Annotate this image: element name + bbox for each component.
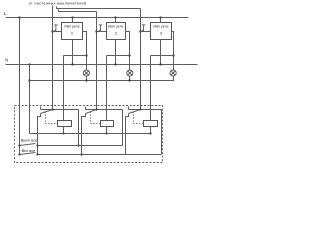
wire: relay 2 coil return to N <box>115 40 117 65</box>
node: N connection module 2 <box>114 63 116 65</box>
svg-text:Имп реле: Имп реле <box>64 24 80 28</box>
wire: all-off line <box>38 145 123 147</box>
wire: L to relay module 2 <box>115 18 117 23</box>
svg-text:Имп реле: Имп реле <box>153 24 169 28</box>
lamp EL2 <box>127 70 133 76</box>
wire: state line down to group coil 1 <box>63 56 65 121</box>
node: button line junction module 1 <box>51 30 53 32</box>
wire: button line into relay module 3 <box>141 31 151 33</box>
wire: aux contact 3 rail down <box>161 110 163 155</box>
node: control line end at aux contact 1 <box>51 108 53 110</box>
push-button SB2 (wall switch) <box>98 25 102 32</box>
node: L connection module 3 <box>159 16 161 18</box>
wire: control line module 2 (drop from wall-switch bus) <box>96 12 98 110</box>
wire: aux contact 2 common down to ON rail <box>82 114 86 155</box>
wire: state line down to group coil 3 <box>150 56 152 121</box>
node: L tap for master switches <box>18 16 20 18</box>
node: lamp 1 return junction <box>85 79 87 81</box>
group-control relay coil K1 <box>58 121 72 127</box>
impulse relay module 2 (Имп реле 2) <box>107 23 126 40</box>
wire: control line module 3 (drop from wall-switch bus) <box>140 9 142 110</box>
wire: lamp 3 to return bus <box>173 77 175 81</box>
node: control line end at aux contact 3 <box>139 108 141 110</box>
node: module 1 rail to all-off line <box>77 144 79 146</box>
node: N connection module 3 <box>159 63 161 65</box>
impulse relay module 3 (Имп реле 3) <box>151 23 172 40</box>
wire: state tap line module 2 <box>107 55 130 57</box>
aux contact 3: bar / state rail <box>129 109 162 111</box>
node: all-on line junction <box>36 153 38 155</box>
wire: all-on line <box>38 154 162 156</box>
wire: coil 3 to common rail <box>150 127 152 134</box>
wire: button line into relay module 2 <box>97 31 107 33</box>
wire: relay 3 coil return to N <box>160 40 162 65</box>
group-control relay coil K2 <box>101 121 114 127</box>
aux contact 2: bar / state rail <box>86 109 123 111</box>
wire: state tap line module 3 <box>151 55 174 57</box>
aux contact 3: blade <box>129 110 141 114</box>
push-button SB1 (wall switch) <box>53 25 57 32</box>
node: coil 2 common junction <box>105 132 107 134</box>
svg-text:Выкл все: Выкл все <box>21 139 37 143</box>
mechanical link relay 1 (dashed) <box>46 112 58 124</box>
wire: wall-switch bus A (to module 3) <box>57 7 141 9</box>
mechanical link relay 3 (dashed) <box>134 112 144 124</box>
svg-text:N: N <box>5 58 8 63</box>
wire: L to relay module 1 <box>72 18 74 23</box>
wire: L to relay module 3 <box>160 18 162 23</box>
aux contact 3: fixed terminal tick <box>128 107 130 110</box>
wire: lamp 1 to return bus <box>86 77 88 81</box>
wire: aux contact 1 common down to ON rail <box>38 114 41 155</box>
wire: L feed down to master switches <box>19 18 21 155</box>
wire: button line into relay module 1 <box>53 31 62 33</box>
switch SA2 (all on): left terminal <box>18 153 20 155</box>
push-button SB3 (wall switch) <box>141 25 145 32</box>
node: module 2 common to all-on line <box>80 153 82 155</box>
svg-text:Имп реле: Имп реле <box>108 24 124 28</box>
lamp EL1 <box>83 70 89 76</box>
wire: coil 2 to common rail <box>106 127 108 134</box>
node: control line end at aux contact 2 <box>95 108 97 110</box>
wire: relay 1 output to lamp <box>83 32 87 71</box>
aux contact 2: blade <box>86 110 97 114</box>
wire: lamp 2 to return bus <box>129 77 131 81</box>
wire: N drop to coil common rail <box>29 65 31 134</box>
wire: aux contact 3 common down to ON rail <box>126 114 129 155</box>
aux contact 1: blade <box>41 110 53 114</box>
wire: aux contact 1 rail down <box>78 110 80 146</box>
wire: state line down to group coil 2 <box>106 56 108 121</box>
wire: state tap line module 1 <box>64 55 87 57</box>
wire: neutral bus N <box>6 64 198 66</box>
node: state tap module 3 <box>172 54 174 56</box>
switch SA2: blade <box>20 153 36 155</box>
node: L connection module 2 <box>114 16 116 18</box>
node: coil 1 common junction <box>62 132 64 134</box>
wire: wall-switch bus B (to module 2) <box>59 10 97 12</box>
node: lamp 2 return junction <box>128 79 130 81</box>
node: lamp return tap <box>28 79 30 81</box>
node: button line junction module 3 <box>139 30 141 32</box>
wire: coil 1 to common rail <box>63 127 65 134</box>
switch SA1 (all off): left terminal <box>18 144 20 146</box>
mechanical link relay 2 (dashed) <box>91 112 101 124</box>
node: button line junction module 2 <box>95 30 97 32</box>
aux contact 1: bar / state rail <box>41 109 79 111</box>
svg-text:L: L <box>4 11 7 17</box>
wire: phase bus L <box>6 17 189 19</box>
node: N connection module 1 <box>71 63 73 65</box>
node: all-off line junction <box>36 144 38 146</box>
node: state tap module 2 <box>128 54 130 56</box>
node: L connection module 1 <box>71 16 73 18</box>
svg-text:от настенных выключателей: от настенных выключателей <box>29 1 87 5</box>
node: state tap module 1 <box>85 54 87 56</box>
wire: lamp return bus <box>30 77 174 81</box>
aux contact 2: fixed terminal tick <box>85 107 87 110</box>
impulse relay module 1 (Имп реле 1) <box>62 23 83 40</box>
group-control relay coil K3 <box>144 121 158 127</box>
wire: control line module 1 (drop from wall-switch bus) <box>52 6 54 110</box>
wire: relay 1 coil return to N <box>72 40 74 65</box>
switch SA1: blade <box>20 144 36 146</box>
aux contact 1: fixed terminal tick <box>40 107 42 110</box>
node: coil 3 common junction <box>149 132 151 134</box>
wire: aux contact 2 rail down <box>122 110 124 146</box>
wire: relay 3 output to lamp <box>172 32 174 71</box>
wire: relay 2 output to lamp <box>126 32 130 71</box>
node: N tap <box>28 63 30 65</box>
lamp EL3 <box>170 70 176 76</box>
wire: coil common return rail <box>30 133 151 135</box>
central control unit enclosure (dashed) <box>15 106 163 163</box>
